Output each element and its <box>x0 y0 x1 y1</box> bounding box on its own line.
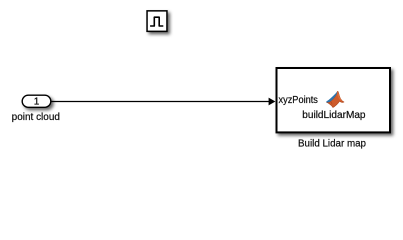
wire <box>51 101 270 103</box>
pulse generator block <box>147 11 167 32</box>
svg-text:1: 1 <box>34 97 40 108</box>
svg-text:point cloud: point cloud <box>12 112 60 123</box>
svg-text:buildLidarMap: buildLidarMap <box>302 110 366 121</box>
svg-text:Build Lidar map: Build Lidar map <box>298 139 366 150</box>
buildLidarMap block <box>277 68 391 132</box>
inport block 1 <box>22 95 51 107</box>
svg-text:xyzPoints: xyzPoints <box>279 95 318 106</box>
arrowhead <box>269 98 276 106</box>
pulse icon <box>151 17 163 26</box>
MATLAB logo <box>326 91 344 107</box>
